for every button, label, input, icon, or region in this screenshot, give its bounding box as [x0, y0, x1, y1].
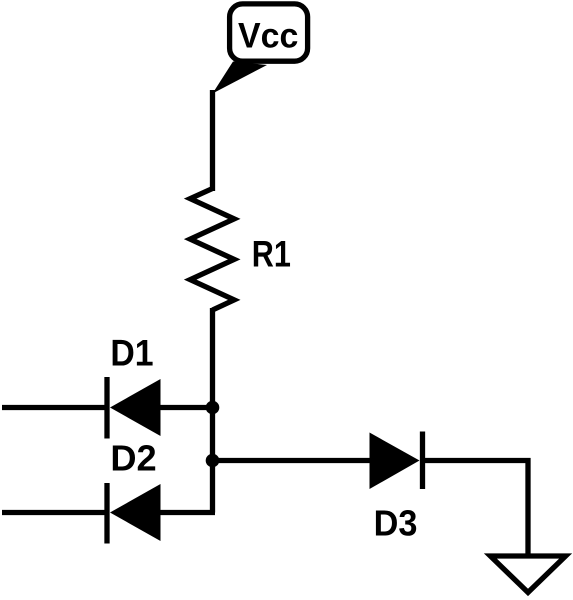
diode D3 — [370, 432, 531, 490]
Vcc flag body — [230, 4, 308, 61]
svg-text:D3: D3 — [374, 502, 418, 543]
wire D3 cathode — [423, 458, 531, 463]
D2 cathode bar — [104, 483, 109, 544]
node A junction dot — [206, 401, 220, 415]
svg-text:D2: D2 — [110, 437, 156, 478]
wire R1 to node A — [210, 308, 215, 513]
node B junction dot — [206, 454, 220, 468]
wire D1 anode input — [2, 405, 107, 410]
svg-text:D1: D1 — [110, 332, 153, 373]
wire Vcc to R1 — [210, 90, 215, 191]
D3 cathode bar — [420, 432, 425, 490]
resistor R1 — [190, 189, 234, 311]
Vcc flag tail — [213, 62, 268, 94]
D1 triangle — [110, 379, 161, 436]
wire D2 to node B — [161, 510, 216, 515]
power flag Vcc — [213, 4, 308, 94]
svg-text:R1: R1 — [252, 233, 291, 274]
D1 cathode bar — [104, 377, 109, 439]
wire D2 anode input — [2, 510, 107, 515]
wire node B to D3 — [213, 458, 371, 463]
diode D2 — [2, 483, 215, 544]
ground — [490, 556, 565, 592]
wire D1 to node A — [161, 405, 213, 410]
D2 triangle — [110, 484, 161, 541]
D3 triangle — [370, 433, 420, 490]
wire D3 to ground — [525, 458, 530, 554]
svg-text:Vcc: Vcc — [238, 15, 298, 55]
diode D1 — [2, 377, 213, 439]
